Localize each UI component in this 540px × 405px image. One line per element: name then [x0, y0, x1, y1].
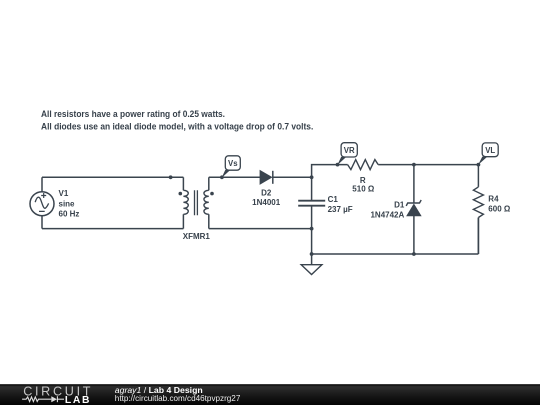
svg-text:510 Ω: 510 Ω: [352, 185, 375, 194]
node Vs junction dot: [220, 175, 224, 179]
capacitor C1: [298, 201, 325, 206]
flag Vs pointer: [222, 170, 231, 178]
secondary winding: [204, 190, 209, 214]
transformer XFMR1: [179, 177, 214, 228]
wire top-left from V1 to XFMR1 primary: [42, 176, 183, 178]
svg-text:R4: R4: [488, 195, 499, 204]
secondary lead top: [208, 177, 210, 190]
wire C1 bottom down to ground row: [311, 206, 313, 254]
wire XFMR1 secondary top to D2: [209, 176, 260, 178]
primary lead bottom: [182, 214, 184, 228]
svg-text:600 Ω: 600 Ω: [488, 204, 511, 213]
wire XFMR1 secondary bottom to C1 branch: [209, 228, 312, 230]
svg-text:1N4742A: 1N4742A: [370, 211, 404, 220]
svg-text:Vs: Vs: [228, 159, 238, 168]
svg-text:LAB: LAB: [65, 395, 91, 405]
svg-text:VL: VL: [485, 146, 495, 155]
svg-text:D2: D2: [261, 188, 272, 197]
node dot bottom left: [310, 252, 314, 256]
resistor R: [348, 160, 379, 170]
voltage source V1: [30, 192, 54, 216]
footer bar: [0, 384, 540, 405]
secondary phase dot: [210, 192, 214, 196]
svg-text:D1: D1: [394, 200, 405, 209]
diode D2: [260, 171, 273, 184]
secondary lead bottom: [208, 214, 210, 228]
node dot bottom zener: [412, 252, 416, 256]
flag VL pointer: [478, 157, 487, 165]
svg-text:http://circuitlab.com/cd46tpvp: http://circuitlab.com/cd46tpvpzrg27: [115, 394, 241, 403]
wire V1 top stub: [41, 177, 43, 191]
ground: [301, 254, 322, 275]
zener diode D1: [406, 165, 421, 254]
svg-text:VR: VR: [344, 146, 355, 155]
node VL junction dot: [477, 163, 481, 167]
svg-text:60 Hz: 60 Hz: [59, 209, 80, 218]
flag Vs box: [225, 156, 240, 170]
flag VR box: [341, 143, 357, 157]
wire D2 to C1 node: [273, 176, 312, 178]
svg-text:1N4001: 1N4001: [252, 198, 281, 207]
circuitlab logo symbol: wire-resistor-diode: [22, 396, 64, 402]
wire bottom row: [312, 218, 479, 255]
primary lead top: [182, 177, 184, 190]
wire bottom-left from V1 to XFMR1 primary: [42, 228, 183, 230]
wire C1 node up and right to R: [312, 165, 348, 201]
wire R to VL corner: [378, 164, 478, 166]
node dot at C1 top junction: [310, 175, 314, 179]
node dot zener top: [412, 163, 416, 167]
svg-text:XFMR1: XFMR1: [183, 232, 211, 241]
svg-text:sine: sine: [59, 199, 76, 208]
node VR junction dot: [336, 163, 340, 167]
primary winding: [183, 190, 188, 214]
svg-text:V1: V1: [59, 189, 69, 198]
primary phase dot: [179, 192, 183, 196]
flag VL box: [482, 143, 498, 157]
svg-text:All resistors have a power rat: All resistors have a power rating of 0.2…: [41, 109, 225, 119]
wire V1 bottom stub: [41, 216, 43, 229]
svg-text:All diodes use an ideal diode: All diodes use an ideal diode model, wit…: [41, 121, 313, 131]
flag VR pointer: [337, 157, 346, 165]
svg-text:237 µF: 237 µF: [328, 205, 353, 214]
core: [195, 190, 198, 215]
resistor R4: [473, 165, 483, 254]
node dot XFMR1 bottom junction: [310, 227, 314, 231]
svg-text:C1: C1: [328, 195, 339, 204]
junction dot on top-left wire: [169, 175, 173, 179]
